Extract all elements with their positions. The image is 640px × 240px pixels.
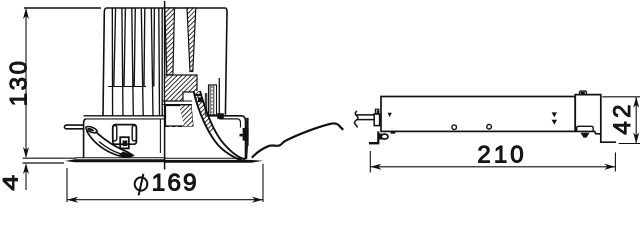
right clip bar <box>246 118 248 146</box>
black blob near edge <box>217 113 224 119</box>
left mounting clip bar <box>64 125 84 129</box>
housing left edge <box>84 119 86 158</box>
housing inner right vertical <box>159 119 161 153</box>
heatsink fin lines (left half, outside view) <box>112 8 162 116</box>
svg-text:210: 210 <box>477 142 526 169</box>
phi169 arrow right <box>252 197 263 203</box>
left box inner part <box>120 137 129 148</box>
fin step line <box>108 86 146 88</box>
dimension 4 extension lower <box>23 162 65 164</box>
dimension 210 arrow right <box>604 164 615 170</box>
terminal block cap top <box>580 91 587 95</box>
dimension 130 arrow bottom <box>23 147 29 158</box>
left spring ribbon lower edge <box>87 131 129 158</box>
centerline <box>164 1 166 170</box>
terminal block <box>575 95 616 143</box>
LED module hatched part <box>179 106 193 127</box>
dimension 4 extension upper <box>23 157 77 159</box>
driver marker triangle left <box>388 113 392 117</box>
inner wall right <box>218 78 220 115</box>
phi169 arrow left <box>67 197 78 203</box>
flange right thin line <box>165 157 246 159</box>
terminal block bottom step <box>575 131 601 133</box>
housing base plate (left) <box>84 115 165 117</box>
hidden dashed line <box>165 126 182 128</box>
terminal block bottom screw <box>581 133 590 138</box>
dimension 130 line <box>25 9 27 157</box>
dimension 210 extension left <box>369 151 371 173</box>
driver marker triangles right <box>552 112 557 117</box>
heatsink right edge <box>225 8 227 115</box>
reflector curve outer <box>200 91 245 159</box>
svg-text:4: 4 <box>0 175 23 191</box>
svg-text:42: 42 <box>609 101 636 135</box>
flange right wedge <box>165 160 264 163</box>
sectioned fin 1 <box>165 8 175 75</box>
sectioned fin 2 <box>187 8 196 72</box>
heatsink body outline <box>106 7 226 9</box>
reflector clamp black <box>198 97 202 102</box>
screw boss <box>209 85 217 115</box>
driver lead wires <box>357 114 375 116</box>
phi169 extension left <box>66 168 68 202</box>
LED module trapezoid <box>166 106 194 127</box>
terminal block left edge <box>574 97 576 132</box>
sectioned reflector cone wall <box>194 91 216 134</box>
dimension 42 line <box>635 97 637 144</box>
terminal block ledge <box>577 126 594 131</box>
dimension 130 arrow top <box>23 8 29 19</box>
flange left thin top line <box>75 157 165 159</box>
sectioned heatsink base <box>165 75 198 101</box>
flange left wedge <box>65 159 165 162</box>
dimension 210 arrow left <box>370 164 381 170</box>
dimension 42 extension bottom <box>619 143 640 145</box>
grommet black <box>379 134 384 140</box>
inner wall lines <box>204 93 206 116</box>
dimension 42 extension top <box>602 96 640 98</box>
lamp inner lines under base <box>163 100 193 102</box>
driver cable cut squiggle <box>354 111 357 127</box>
left terminal box <box>113 125 137 145</box>
right clip connector black <box>243 128 249 141</box>
driver hole 2 <box>487 124 492 129</box>
svg-text:130: 130 <box>5 58 32 106</box>
dimension 42 arrow top <box>633 97 639 108</box>
housing inner shoulder right <box>219 119 240 128</box>
left spring ribbon fold <box>99 142 121 155</box>
reflector curve inner <box>194 91 243 160</box>
left box inner black detail <box>123 141 128 147</box>
left spring curl eye <box>85 125 98 134</box>
dimension 42 arrow bottom <box>633 133 639 144</box>
housing top right outline <box>207 116 246 159</box>
driver bottom notch <box>391 132 396 134</box>
phi169 dimension line <box>67 199 263 201</box>
right clip lower <box>245 146 248 159</box>
left spring tip black <box>119 152 135 159</box>
right clip connector nub <box>240 134 243 137</box>
phi symbol <box>135 177 148 190</box>
phi169 extension right <box>262 164 264 202</box>
driver hole 1 <box>452 125 457 130</box>
lamp cable <box>252 123 343 157</box>
dimension 4 arrow <box>23 163 29 174</box>
driver clamp top detail <box>375 109 378 114</box>
driver box outline <box>381 97 575 132</box>
heatsink left edge <box>103 8 106 116</box>
svg-text:169: 169 <box>152 169 199 196</box>
left spring ribbon upper edge <box>96 132 134 156</box>
left box tab right <box>132 126 136 141</box>
driver left foot <box>377 131 379 143</box>
driver cable clamp <box>374 114 379 126</box>
dimension 4 arrow tail <box>25 166 27 190</box>
dimension 130 extension line top <box>24 7 101 9</box>
dimension 210 extension right <box>614 152 616 171</box>
dimension 210 line <box>370 166 615 168</box>
left box tab left <box>113 126 117 141</box>
